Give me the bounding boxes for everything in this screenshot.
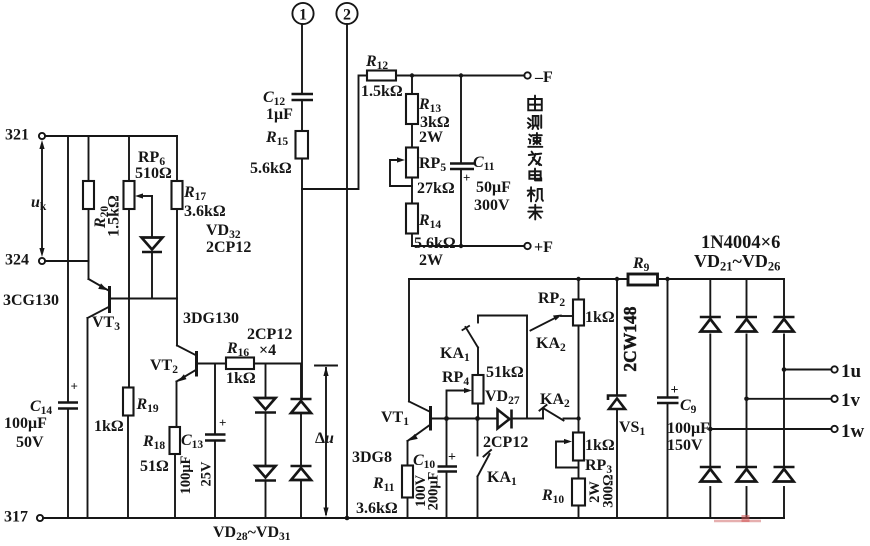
resistor R17 — [172, 136, 226, 346]
wire output 1w — [708, 421, 865, 442]
wire KA1-upper loop down to VD27 cathode — [526, 316, 528, 419]
char su — [528, 133, 542, 147]
resistor R10 — [541, 474, 617, 518]
svg-text:+: + — [71, 379, 78, 394]
potentiometer RP3 — [556, 433, 615, 479]
diode VD27 — [483, 388, 543, 451]
diode VD22 (col2 top) — [736, 279, 757, 466]
svg-text:1kΩ: 1kΩ — [226, 370, 256, 387]
svg-text:2CW148: 2CW148 — [620, 306, 640, 371]
watermark — [714, 520, 761, 523]
zener diode VS1 2CW148 — [608, 277, 645, 518]
svg-text:3DG8: 3DG8 — [352, 449, 392, 466]
junction dot terminal2 rail — [345, 516, 350, 521]
capacitor C12 — [263, 89, 313, 123]
char fa — [529, 152, 541, 166]
wire jog R15 to R12 — [302, 76, 367, 190]
svg-text:3CG130: 3CG130 — [3, 292, 59, 309]
switch KA1 lower — [478, 419, 518, 519]
svg-text:2CP12: 2CP12 — [247, 326, 292, 343]
capacitor C14 — [4, 136, 78, 518]
svg-text:100μF: 100μF — [178, 455, 194, 494]
node 317 terminal — [4, 509, 43, 526]
svg-text:+: + — [671, 383, 679, 398]
diode VD31 (bridge right bottom) — [291, 415, 312, 519]
svg-text:2: 2 — [343, 7, 351, 24]
svg-text:–F: –F — [534, 69, 553, 86]
svg-text:1.5kΩ: 1.5kΩ — [106, 195, 123, 237]
potentiometer RP6 — [124, 136, 173, 388]
node delta-u measurement arrow — [315, 366, 337, 518]
svg-text:+: + — [448, 450, 456, 465]
svg-text:1kΩ: 1kΩ — [585, 437, 615, 454]
svg-text:3.6kΩ: 3.6kΩ — [356, 500, 398, 517]
wire bottom rail — [43, 517, 784, 519]
wire from terminal 2 down to bottom rail — [346, 24, 348, 518]
potentiometer RP5 — [390, 148, 455, 204]
svg-text:300Ω: 300Ω — [601, 474, 617, 507]
node uk measurement arrow — [31, 140, 47, 257]
resistor R20 — [83, 136, 123, 262]
svg-text:VD21~VD26: VD21~VD26 — [694, 251, 780, 274]
diode VD21 (col1 top) — [700, 279, 721, 466]
capacitor C13 — [178, 364, 226, 519]
svg-text:Δu: Δu — [315, 430, 334, 447]
diode VD25 (col2 bottom) — [736, 467, 757, 518]
svg-text:1v: 1v — [841, 390, 861, 411]
wire VT1 base — [431, 418, 498, 420]
svg-text:5.6kΩ: 5.6kΩ — [414, 235, 456, 252]
node 324 terminal — [5, 252, 45, 269]
capacitor C11 — [450, 73, 511, 248]
svg-text:300V: 300V — [474, 197, 510, 214]
svg-text:321: 321 — [5, 127, 29, 144]
resistor R14 — [406, 204, 524, 270]
svg-text:2CP12: 2CP12 — [483, 434, 528, 451]
wire supply rail (left of R9) — [409, 278, 628, 280]
svg-text:324: 324 — [5, 252, 29, 269]
svg-text:+: + — [463, 170, 470, 185]
svg-text:1N4004×6: 1N4004×6 — [701, 233, 780, 253]
svg-text:1kΩ: 1kΩ — [585, 309, 615, 326]
wire output 1u — [782, 361, 862, 382]
junction VT1 base / C10 — [444, 416, 449, 421]
diode VD23 (col3 top) — [774, 279, 795, 466]
svg-text:100μF: 100μF — [4, 415, 47, 432]
switch KA2 lower — [540, 391, 579, 421]
resistor R18 — [140, 427, 180, 518]
wire top-left rail from 321 — [45, 135, 177, 137]
char dian — [529, 169, 541, 181]
resistor R12 — [361, 53, 524, 100]
transistor VT2 3DG130 — [150, 310, 239, 427]
svg-text:1: 1 — [299, 7, 307, 24]
resistor R9 — [628, 255, 658, 285]
diode VD28 (bridge left top) — [255, 364, 276, 413]
wire supply rail (right of R9) — [658, 278, 784, 280]
svg-text:150V: 150V — [667, 437, 703, 454]
char ji — [528, 187, 543, 201]
transistor VT3 3CG130 — [3, 262, 120, 519]
char you — [528, 96, 542, 111]
svg-text:2CP12: 2CP12 — [206, 239, 251, 256]
capacitor C10 — [413, 419, 457, 519]
capacitor C9 — [657, 277, 710, 518]
node terminal circle 1 — [292, 3, 313, 24]
potentiometer RP2 — [538, 277, 615, 433]
svg-text:317: 317 — [4, 509, 28, 526]
resistor R16 — [226, 326, 301, 387]
svg-text:51kΩ: 51kΩ — [486, 364, 524, 381]
svg-text:1μF: 1μF — [266, 106, 293, 123]
svg-text:100μF: 100μF — [667, 420, 710, 437]
svg-text:50V: 50V — [16, 434, 44, 451]
wire from 324 — [45, 260, 89, 262]
svg-text:+F: +F — [534, 239, 553, 256]
wire output 1v — [744, 390, 860, 411]
svg-text:3.6kΩ: 3.6kΩ — [184, 203, 226, 220]
resistor R19 — [94, 388, 159, 519]
wire from terminal 1 — [301, 24, 303, 93]
diode VD24 (col1 bottom) — [700, 467, 721, 518]
node terminal +F — [524, 239, 553, 256]
node terminal -F — [524, 69, 553, 86]
resistor R15 — [250, 100, 308, 397]
diode VD32 — [142, 196, 252, 299]
diode VD26 (col3 bottom) — [774, 467, 795, 518]
transistor VT1 3DG8 — [352, 279, 431, 466]
diode VD30 (bridge right top) — [291, 364, 312, 414]
resistor R13 — [406, 73, 450, 147]
svg-text:2W: 2W — [419, 129, 443, 146]
junction VT1 base / RP4 — [475, 416, 480, 421]
char ce — [528, 115, 541, 129]
svg-text:5.6kΩ: 5.6kΩ — [250, 160, 292, 177]
svg-text:1kΩ: 1kΩ — [94, 418, 124, 435]
svg-text:27kΩ: 27kΩ — [417, 180, 455, 197]
svg-text:50μF: 50μF — [476, 179, 511, 196]
svg-text:510Ω: 510Ω — [135, 165, 172, 182]
svg-text:+: + — [219, 415, 226, 430]
svg-text:3DG130: 3DG130 — [183, 310, 239, 327]
svg-text:×4: ×4 — [259, 342, 276, 359]
svg-text:200μF: 200μF — [426, 471, 442, 510]
svg-text:1.5kΩ: 1.5kΩ — [361, 83, 403, 100]
label Chinese vertical: from tacho-generator (hand-drawn strokes) — [528, 96, 543, 220]
diode VD29 (bridge left bottom) — [255, 413, 276, 518]
svg-text:2W: 2W — [419, 252, 443, 269]
svg-text:1u: 1u — [841, 361, 862, 382]
wire VT2 base to R16 — [197, 363, 227, 365]
svg-text:51Ω: 51Ω — [140, 458, 169, 475]
switch KA2 upper (to RP2 wiper) — [531, 315, 574, 355]
resistor R11 — [356, 466, 413, 519]
switch KA1 upper — [440, 316, 527, 365]
potentiometer RP4 — [442, 348, 524, 419]
svg-text:25V: 25V — [199, 461, 215, 487]
node terminal circle 2 — [336, 3, 357, 24]
node 321 terminal — [5, 127, 45, 144]
svg-text:1w: 1w — [841, 421, 865, 442]
char lai — [528, 205, 542, 220]
wire VT3 base — [110, 298, 178, 300]
